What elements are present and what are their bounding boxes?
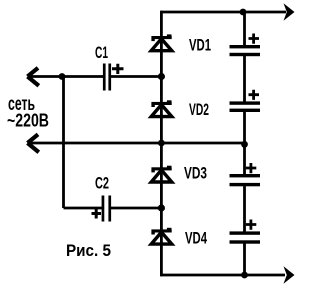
- capacitor C2: [92, 196, 112, 222]
- wire middle rail (mains lower terminal to capacitor midpoint): [29, 142, 245, 145]
- junction top rail / right bus: [240, 9, 247, 16]
- diode VD2: [151, 100, 172, 116]
- capacitor C1: [103, 64, 124, 91]
- arrow mains upper terminal: [28, 68, 39, 86]
- junction C1 / diode bus: [158, 73, 165, 80]
- svg-text:С2: С2: [95, 174, 109, 193]
- wire right bus segment 3: [243, 112, 246, 143]
- svg-text:~220В: ~220В: [7, 110, 49, 130]
- svg-text:С1: С1: [95, 43, 108, 62]
- wire right bus segment 4: [243, 143, 246, 174]
- svg-text:VD1: VD1: [189, 37, 211, 55]
- junction bottom rail / right bus: [241, 272, 248, 279]
- svg-text:VD4: VD4: [185, 229, 208, 247]
- wire C2 right plate to diode bus: [111, 207, 161, 210]
- diode VD1: [151, 34, 172, 50]
- junction middle rail / right bus: [241, 141, 248, 148]
- arrow mains lower terminal: [28, 134, 39, 152]
- wire right bus segment 1: [243, 11, 246, 46]
- wire mains upper terminal to C1: [29, 75, 104, 78]
- arrow top-right output: [284, 3, 295, 21]
- capacitor right top 2: [230, 90, 261, 112]
- wire C1 right plate to diode bus: [111, 75, 161, 78]
- wire C2 branch vertical: [62, 77, 65, 209]
- junction mains upper / C2 branch: [59, 73, 66, 80]
- diode VD4: [151, 228, 172, 244]
- capacitor right top 1: [230, 34, 261, 57]
- capacitor right bottom 1: [230, 163, 261, 186]
- wire right bus segment 6: [243, 244, 246, 277]
- svg-text:VD2: VD2: [189, 101, 209, 119]
- diode VD3: [151, 166, 172, 182]
- wire right bus segment 2: [243, 56, 246, 102]
- junction C2 / diode bus: [158, 204, 165, 211]
- wire bottom output rail: [161, 274, 285, 277]
- junction middle rail / diode bus: [158, 140, 165, 147]
- wire top output rail: [161, 11, 286, 14]
- wire left diode bus: [160, 11, 163, 277]
- svg-text:Рис. 5: Рис. 5: [66, 242, 111, 260]
- svg-text:VD3: VD3: [184, 164, 207, 182]
- arrow bottom-right output: [284, 266, 295, 284]
- wire C2 branch horizontal left: [64, 207, 103, 210]
- wire right bus segment 5: [243, 186, 246, 232]
- capacitor right bottom 2: [230, 220, 261, 244]
